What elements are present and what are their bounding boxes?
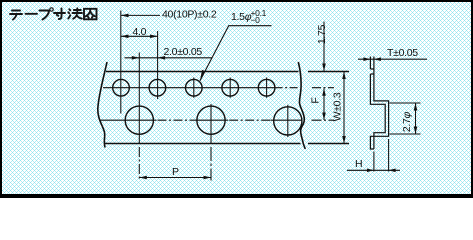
svg-text:W±0.3: W±0.3 [332, 92, 344, 121]
svg-text:F: F [310, 97, 322, 103]
svg-text:1.75: 1.75 [316, 24, 328, 44]
svg-text:P: P [172, 166, 179, 178]
svg-text:H: H [355, 158, 362, 170]
svg-text:2.0±0.05: 2.0±0.05 [164, 46, 203, 58]
svg-text:−0: −0 [251, 15, 261, 25]
svg-text:T±0.05: T±0.05 [387, 47, 418, 59]
svg-text:2.7φ: 2.7φ [401, 111, 413, 132]
svg-text:1.5φ: 1.5φ [231, 11, 252, 23]
svg-text:40(10P)±0.2: 40(10P)±0.2 [162, 9, 217, 21]
svg-text:4.0: 4.0 [133, 26, 147, 38]
